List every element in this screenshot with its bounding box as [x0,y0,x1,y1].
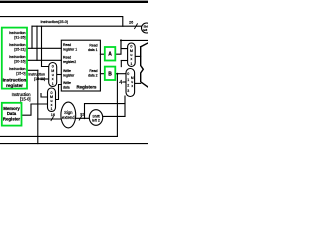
wire B out to muxB in0 [115,73,126,75]
wire read register 1 [27,47,61,49]
svg-text:left 2: left 2 [143,28,148,32]
junction top right [120,39,122,41]
svg-text:Instruction: Instruction [9,31,26,35]
mux MemtoReg [48,88,56,112]
svg-text:1: 1 [127,78,129,82]
svg-text:Write: Write [63,81,71,85]
labels [3,20,150,123]
svg-text:data: data [63,86,70,90]
wire A out [115,40,121,54]
wire bottom ALUOut feedback [0,143,148,145]
wire Instruction[25-0] upper [0,17,123,27]
svg-text:Instruction(25-0): Instruction(25-0) [41,20,69,24]
svg-text:Registers: Registers [76,84,97,89]
wire tap Instruction[20-16] [36,26,38,60]
wire PC bus top [0,1,148,3]
register A (green) [105,47,116,61]
mux ALUSrcB [126,69,135,97]
svg-text:1: 1 [51,107,53,111]
mux glyphs [50,45,134,112]
svg-text:data 1: data 1 [88,48,98,52]
wire 4 constant to muxB in1 [123,81,126,83]
svg-text:Read: Read [89,69,97,73]
wire muxA input1 stub down [120,61,122,67]
svg-text:extend: extend [62,115,75,120]
svg-text:data 2: data 2 [88,74,98,78]
svg-text:[15-0]: [15-0] [16,71,25,75]
shift left 2 ellipse [89,110,102,126]
wire muxA input1 [121,60,127,62]
svg-text:4: 4 [119,80,122,86]
wire bottom B to memory write data [0,135,117,137]
svg-text:register: register [6,83,23,88]
wire B down to bottom [116,74,118,137]
sign extend ellipse [61,102,76,128]
wire Instruction[15-0] out [27,69,38,71]
svg-text:x: x [131,57,133,61]
ALU U3 [141,43,148,87]
junction B wire [116,73,118,75]
wire mux RegDst input0 [38,78,49,80]
memory data register (green) [2,103,22,126]
wire Instruction[15-0] down [37,70,39,143]
svg-text:left 2: left 2 [92,119,100,123]
junction Instruction 15-11 tap [37,78,39,80]
svg-text:1: 1 [130,62,132,66]
instruction register (green) [2,28,116,126]
wire read data 1 to A [100,53,104,55]
svg-text:Instruction: Instruction [9,43,26,47]
wire mux MemtoReg out to Write data [56,85,62,100]
svg-text:Write: Write [63,69,71,73]
svg-text:3: 3 [127,89,129,93]
svg-text:Instruction: Instruction [9,55,26,59]
svg-text:0: 0 [130,45,132,49]
junction sign extend branch [84,117,86,119]
wire sign extend branch up to muxB in2 [85,104,126,119]
svg-text:x: x [52,77,54,81]
svg-text:26: 26 [129,21,133,25]
wire top right horizontal [121,39,148,41]
svg-text:[31-26]: [31-26] [14,35,25,39]
svg-text:32: 32 [80,113,84,117]
wire read data 2 to B [100,73,104,75]
wire mux MemtoReg input0 [31,103,48,105]
svg-text:Instruction: Instruction [3,78,27,83]
slash 16 bits [51,117,53,121]
wire tap Instruction[25-21] [31,26,33,48]
svg-text:register: register [63,74,75,78]
svg-text:0: 0 [52,65,54,69]
wire Instruction[25-0] to shift-left-2 [32,25,142,27]
svg-text:register2: register2 [63,60,76,64]
svg-text:1: 1 [52,82,54,86]
svg-text:[15-0]: [15-0] [20,96,30,101]
svg-text:B: B [108,71,112,77]
svg-text:A: A [108,52,112,58]
svg-text:2: 2 [127,84,129,88]
wire Instr[15-0] branch to sign extend [41,94,48,98]
wire tap Instruction[15-11] [42,26,49,66]
wire mux RegDst out to Write register [57,74,62,76]
wire read register 2 [27,59,61,61]
slash 26 bits [135,24,138,29]
svg-text:0: 0 [127,72,129,76]
slash 32 bits [79,116,81,120]
svg-text:[15-11]: [15-11] [34,77,45,81]
wire muxA out to ALU [135,55,141,57]
wire MDR out [22,104,32,115]
register B (green) [105,67,116,80]
svg-text:[25-21]: [25-21] [14,47,25,51]
wire shift left 2 out to muxB in3 [103,96,125,116]
wire muxA input0 [121,40,128,48]
shift left 2 circle (jump) [142,23,152,33]
wire sign extend input [38,118,61,120]
svg-text:register 1: register 1 [63,48,77,52]
svg-text:Register: Register [3,116,21,121]
svg-text:16: 16 [51,113,55,117]
svg-text:Read: Read [63,43,71,47]
svg-text:Read: Read [63,56,71,60]
mux ALUSrcA [128,43,136,67]
svg-text:Read: Read [89,44,97,48]
registers box [61,40,100,91]
svg-text:Instruction: Instruction [9,67,26,71]
wire muxB out to ALU [135,82,141,84]
mux RegDst [49,63,57,87]
wire sign extend to shift left 2 [76,117,90,119]
svg-text:[20-16]: [20-16] [14,59,25,63]
